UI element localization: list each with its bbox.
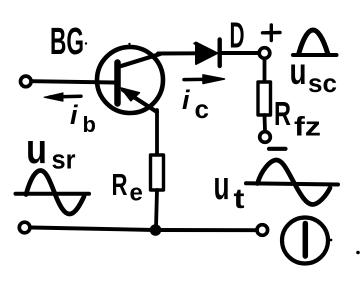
svg-text:t: t: [234, 183, 245, 214]
svg-text:sr: sr: [52, 145, 76, 175]
svg-text:c: c: [195, 94, 209, 124]
svg-text:u: u: [290, 51, 307, 92]
svg-text:i: i: [70, 100, 78, 130]
svg-text:e: e: [130, 180, 143, 207]
svg-text:R: R: [274, 95, 291, 132]
svg-text:R: R: [112, 167, 128, 202]
svg-text:fz: fz: [294, 112, 321, 142]
svg-text:BG: BG: [50, 21, 84, 63]
svg-text:D: D: [230, 15, 245, 56]
svg-text:u: u: [26, 125, 47, 172]
svg-text:u: u: [214, 164, 230, 208]
svg-text:b: b: [83, 112, 96, 137]
svg-text:sc: sc: [308, 68, 337, 98]
svg-text:i: i: [182, 85, 190, 115]
